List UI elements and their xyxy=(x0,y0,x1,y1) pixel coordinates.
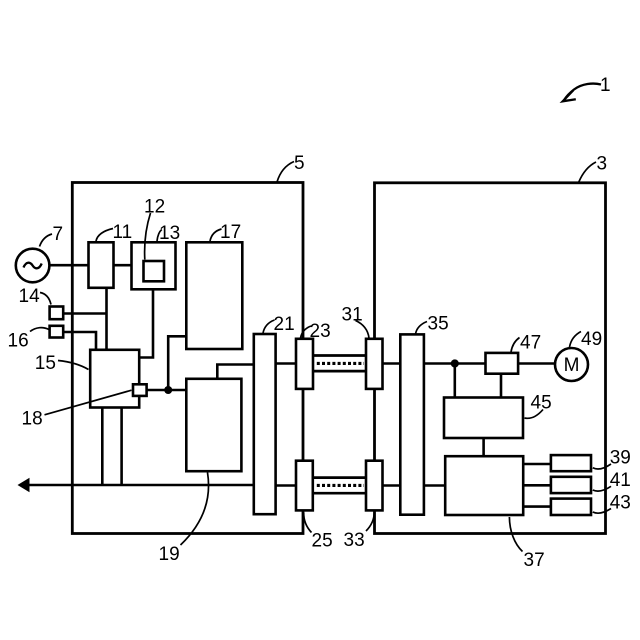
svg-text:11: 11 xyxy=(113,222,133,243)
svg-text:17: 17 xyxy=(220,222,241,243)
leader 35 xyxy=(416,322,428,335)
svg-text:31: 31 xyxy=(342,305,363,326)
svg-text:3: 3 xyxy=(597,154,608,175)
AC source circle 7 xyxy=(16,249,50,283)
junction dot at box18-box19 wire xyxy=(164,386,172,394)
leader 15 xyxy=(58,361,89,370)
wire box19 top to box21 left edge xyxy=(217,365,254,379)
leader 16 xyxy=(30,328,49,332)
box 43 xyxy=(551,499,591,515)
svg-text:18: 18 xyxy=(22,409,43,430)
box 17 xyxy=(186,242,242,349)
box 37 xyxy=(445,456,523,515)
leader 49 xyxy=(570,332,582,348)
svg-text:15: 15 xyxy=(35,353,56,374)
unit box 5 xyxy=(72,183,303,534)
leader 21 xyxy=(263,320,275,333)
leader 23 xyxy=(301,326,312,338)
svg-text:12: 12 xyxy=(144,197,165,218)
svg-text:M: M xyxy=(564,355,580,376)
svg-text:41: 41 xyxy=(610,470,631,491)
svg-text:7: 7 xyxy=(53,224,64,245)
wire box15 bottom right down xyxy=(120,408,123,486)
box 31 xyxy=(366,339,383,389)
wire box37 to box43 xyxy=(523,505,551,508)
leader 43 xyxy=(593,509,611,514)
wire output arrow line to box21 xyxy=(27,484,254,487)
wire box37 to box41 xyxy=(523,484,551,487)
bus dotted line upper xyxy=(317,362,364,365)
svg-text:49: 49 xyxy=(581,329,602,350)
wire box15 bottom left down xyxy=(101,408,104,486)
leader 5 xyxy=(277,162,294,183)
wire box47 to motor49 xyxy=(518,362,555,365)
wire box33 to box35 xyxy=(383,484,401,487)
wire box31 to box35 xyxy=(383,362,401,365)
wire box47 bottom to box45 top xyxy=(500,374,503,398)
leader 25 xyxy=(304,513,312,533)
leader 41 xyxy=(593,486,611,491)
svg-text:25: 25 xyxy=(312,531,333,552)
svg-text:21: 21 xyxy=(274,314,295,335)
wire junction down to box45 top xyxy=(453,364,456,398)
wire junction up to box17 left edge xyxy=(168,336,186,390)
svg-text:1: 1 xyxy=(600,75,611,96)
bus line lower top xyxy=(313,476,367,479)
wire box21 to box23 xyxy=(276,362,296,365)
bus line lower bottom xyxy=(313,492,367,495)
box 15 xyxy=(90,350,139,408)
leader 31 xyxy=(356,321,370,339)
svg-text:19: 19 xyxy=(159,544,180,565)
svg-text:13: 13 xyxy=(159,223,180,244)
wire box35 to box47 xyxy=(424,362,486,365)
wire box45 bottom to box37 top xyxy=(482,438,485,456)
svg-text:39: 39 xyxy=(610,448,631,469)
reference arrow 1 xyxy=(565,84,602,100)
box 19 xyxy=(186,379,241,471)
box 25 xyxy=(296,461,313,511)
wire box35 to box37 xyxy=(424,484,445,487)
svg-text:23: 23 xyxy=(310,321,331,342)
unit box 3 xyxy=(375,183,606,534)
leader 3 xyxy=(579,162,596,182)
leader 37 xyxy=(509,517,522,552)
box 39 xyxy=(551,455,591,471)
box 47 xyxy=(486,353,519,374)
box 35 xyxy=(400,334,424,514)
wire box21 to box25 xyxy=(276,484,296,487)
output arrowhead left xyxy=(18,478,30,492)
svg-text:33: 33 xyxy=(344,530,365,551)
leader 19 xyxy=(181,473,209,546)
wire box18 to box19 via junction xyxy=(146,389,186,392)
wire box16 to box15 top xyxy=(63,332,96,350)
wire box11 down to box15 xyxy=(105,288,108,350)
box 16 xyxy=(50,326,64,338)
svg-text:5: 5 xyxy=(294,153,305,174)
leader 47 xyxy=(511,338,520,353)
AC tilde symbol xyxy=(24,263,42,269)
leader 33 xyxy=(366,513,374,532)
svg-text:43: 43 xyxy=(610,493,631,514)
junction dot on motor feed wire xyxy=(451,359,459,367)
svg-text:35: 35 xyxy=(428,314,449,335)
leader 13 xyxy=(157,230,162,242)
box 11 xyxy=(89,242,114,287)
box 21 xyxy=(254,334,276,514)
box 41 xyxy=(551,477,591,493)
bus line upper top xyxy=(313,354,367,357)
svg-text:47: 47 xyxy=(520,333,541,354)
box 13 xyxy=(132,242,176,289)
box 18 on box15 edge xyxy=(133,384,147,396)
box 33 xyxy=(366,461,383,511)
wire box37 to box39 xyxy=(523,463,551,466)
box 23 xyxy=(296,339,313,389)
leader 12 xyxy=(145,213,151,260)
wire box14 to node on box11-box15 wire xyxy=(63,312,107,315)
leader 18 xyxy=(45,390,132,415)
box 45 xyxy=(444,398,523,439)
box 14 xyxy=(50,307,64,320)
leader 17 xyxy=(210,229,222,241)
bus dotted line lower xyxy=(317,484,364,487)
leader 11 xyxy=(96,229,113,242)
bus line upper bottom xyxy=(313,370,367,373)
wire box11 to box13 xyxy=(114,264,132,267)
wire box13 down to box15 right edge xyxy=(139,290,153,358)
motor circle 49 xyxy=(555,348,588,381)
svg-text:37: 37 xyxy=(524,550,545,571)
svg-text:45: 45 xyxy=(531,393,552,414)
svg-text:14: 14 xyxy=(19,286,41,307)
leader 45 xyxy=(525,410,544,419)
leader 7 xyxy=(40,234,53,247)
wire source7 to box11 xyxy=(48,264,89,267)
svg-text:16: 16 xyxy=(8,331,29,352)
box 12 inside box 13 xyxy=(144,261,165,281)
leader 39 xyxy=(593,464,611,469)
leader 14 xyxy=(40,293,51,305)
